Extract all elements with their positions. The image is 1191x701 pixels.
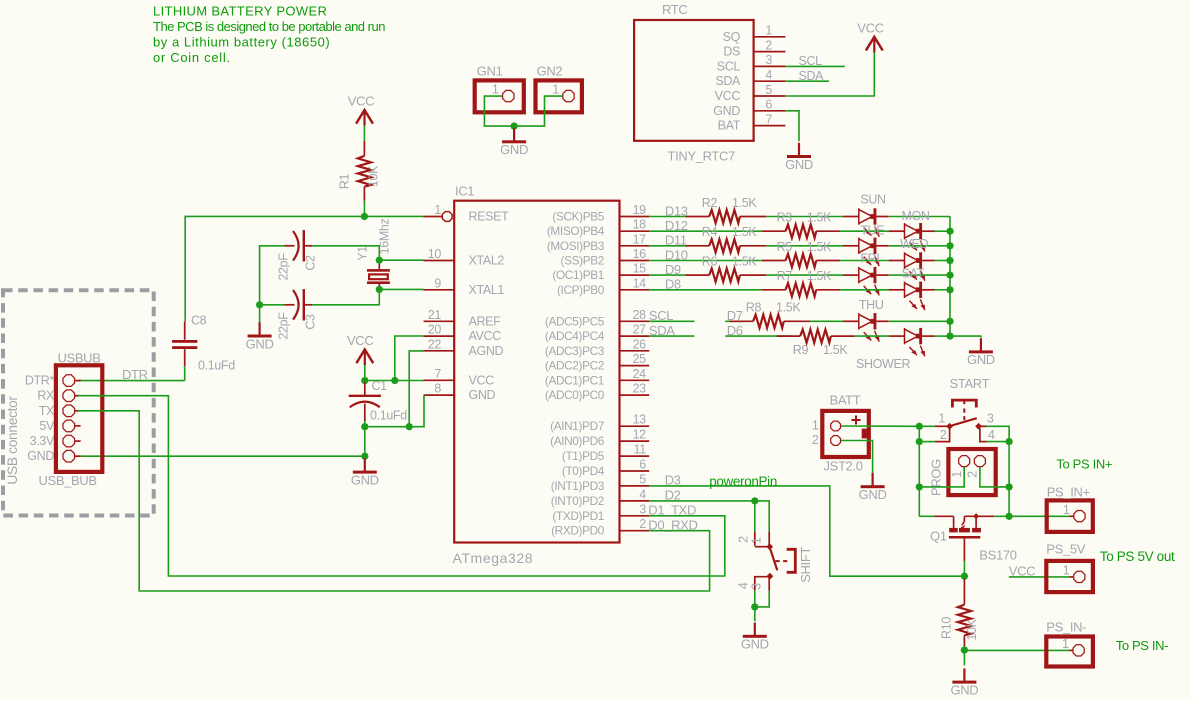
- svg-text:R2: R2: [702, 196, 718, 210]
- svg-text:2: 2: [940, 428, 947, 442]
- svg-text:D1_TXD: D1_TXD: [648, 503, 696, 518]
- svg-text:1: 1: [1062, 637, 1069, 651]
- svg-text:GND: GND: [351, 472, 379, 487]
- svg-text:(INT1)PD3: (INT1)PD3: [551, 479, 605, 493]
- wire BATT+ rail down: [918, 426, 920, 516]
- wire GN2 pin1 to GND: [514, 96, 562, 126]
- svg-text:1.5K: 1.5K: [732, 225, 757, 239]
- svg-text:1.5K: 1.5K: [776, 301, 801, 315]
- svg-text:(MISO)PB4: (MISO)PB4: [547, 224, 605, 238]
- svg-text:22pF: 22pF: [277, 312, 291, 340]
- annotation note: [153, 4, 385, 66]
- wire net poweronPin (D3): [649, 473, 964, 577]
- svg-text:4: 4: [765, 68, 772, 82]
- svg-text:R7: R7: [777, 269, 793, 283]
- wire net SCL (IC pin28): [649, 308, 695, 323]
- wire net SDA (IC pin27): [649, 323, 695, 338]
- svg-text:1: 1: [552, 83, 559, 97]
- svg-text:GN1: GN1: [477, 64, 503, 79]
- svg-text:2: 2: [765, 38, 772, 52]
- svg-text:28: 28: [633, 308, 647, 322]
- svg-text:To PS 5V out: To PS 5V out: [1100, 549, 1175, 564]
- svg-text:GND: GND: [500, 142, 528, 157]
- svg-text:4: 4: [639, 487, 646, 501]
- transistor Q1 BS170: [930, 513, 1017, 562]
- svg-text:0.1uFd: 0.1uFd: [198, 359, 235, 373]
- wire GND pin8: [365, 395, 424, 427]
- svg-text:18: 18: [633, 218, 647, 232]
- wire R1 to RESET node: [363, 201, 365, 217]
- svg-text:23: 23: [633, 382, 647, 396]
- svg-text:6: 6: [765, 98, 772, 112]
- wire SHIFT to GND: [755, 591, 769, 622]
- ground GND (R10): [950, 668, 978, 697]
- svg-text:R6: R6: [702, 255, 718, 269]
- svg-text:11: 11: [634, 443, 647, 457]
- svg-text:LITHIUM BATTERY POWER: LITHIUM BATTERY POWER: [153, 4, 327, 19]
- junction D2 node: [751, 497, 759, 505]
- wire VCC to pin7 node: [364, 365, 366, 381]
- svg-text:0.1uFd: 0.1uFd: [370, 409, 407, 423]
- ground GND (RTC): [785, 143, 813, 172]
- svg-text:TUE: TUE: [860, 224, 884, 238]
- junction LED bus: [946, 286, 954, 294]
- svg-text:17: 17: [633, 232, 647, 246]
- svg-text:GN2: GN2: [537, 64, 563, 79]
- svg-text:26: 26: [633, 337, 647, 351]
- svg-text:1: 1: [812, 419, 819, 433]
- junction PROG1 branch: [916, 483, 924, 491]
- wire C1 to GND node: [364, 421, 366, 427]
- svg-text:R8: R8: [746, 301, 762, 315]
- svg-text:R1: R1: [338, 173, 352, 189]
- svg-text:PS_5V: PS_5V: [1046, 542, 1085, 557]
- IC U1 ATmega328 (IC1): [424, 184, 650, 567]
- svg-text:D10: D10: [665, 247, 688, 262]
- svg-text:SAT: SAT: [902, 266, 925, 280]
- junction START pin1: [916, 423, 924, 431]
- svg-text:WED: WED: [900, 237, 928, 251]
- svg-text:5V: 5V: [39, 419, 55, 433]
- svg-text:BATT: BATT: [830, 393, 861, 408]
- wire AGND (pin22): [409, 351, 423, 427]
- USB connector frame: [3, 290, 154, 515]
- svg-text:To PS IN-: To PS IN-: [1116, 638, 1168, 653]
- junction LED bus: [946, 242, 954, 250]
- junction SHIFT gnd: [751, 603, 759, 611]
- svg-text:XTAL1: XTAL1: [469, 283, 505, 297]
- svg-text:3: 3: [750, 583, 764, 590]
- ground GND (GN1/GN2): [500, 128, 528, 157]
- wire C8 to DTR: [184, 366, 186, 380]
- connector GN2: [536, 64, 582, 113]
- svg-text:3.3V: 3.3V: [30, 434, 55, 448]
- svg-text:DTR*: DTR*: [25, 374, 55, 388]
- svg-text:SUN: SUN: [860, 193, 886, 207]
- crystal Y1: [356, 219, 392, 288]
- wire BATT- to GND: [841, 441, 873, 474]
- svg-text:TINY_RTC7: TINY_RTC7: [668, 149, 736, 164]
- svg-text:1: 1: [434, 203, 441, 217]
- svg-text:D12: D12: [665, 218, 688, 233]
- resistor R4 / LED TUE row (net D11): [649, 224, 950, 266]
- resistor R9 / LED SHOWER row (net D6): [725, 323, 950, 371]
- svg-text:(ADC2)PC2: (ADC2)PC2: [545, 359, 604, 373]
- svg-text:(ICP)PB0: (ICP)PB0: [557, 283, 605, 297]
- junction GN ground: [510, 122, 518, 130]
- svg-text:GND: GND: [27, 449, 54, 463]
- svg-text:SCL: SCL: [717, 59, 741, 73]
- svg-text:D0_RXD: D0_RXD: [648, 517, 697, 532]
- wire RTC VCC (pin5): [785, 51, 874, 96]
- resistor R10: [940, 579, 980, 649]
- svg-text:AGND: AGND: [469, 344, 504, 358]
- svg-text:R3: R3: [777, 211, 793, 225]
- svg-text:(T0)PD4: (T0)PD4: [562, 464, 605, 478]
- svg-text:PS_IN+: PS_IN+: [1047, 485, 1090, 500]
- svg-text:GND: GND: [967, 352, 995, 367]
- svg-text:1.5K: 1.5K: [807, 269, 832, 283]
- svg-text:3: 3: [765, 53, 772, 67]
- svg-text:C8: C8: [191, 314, 207, 328]
- annotation To PS IN+: [1056, 457, 1112, 472]
- svg-text:PS_IN-: PS_IN-: [1046, 620, 1086, 635]
- svg-text:(ADC1)PC1: (ADC1)PC1: [545, 373, 604, 387]
- svg-text:1: 1: [765, 24, 772, 38]
- svg-text:VCC: VCC: [348, 94, 374, 109]
- wire VCC to R1: [363, 126, 365, 142]
- wire START left pins: [919, 426, 934, 441]
- svg-text:The PCB is designed to be port: The PCB is designed to be portable and r…: [153, 19, 385, 34]
- power VCC (RTC): [857, 20, 883, 52]
- svg-text:R9: R9: [793, 343, 809, 357]
- wire C2 left to C3 left: [260, 246, 285, 305]
- svg-text:USB_BUB: USB_BUB: [39, 473, 97, 488]
- wire drain to PS_IN+: [1009, 515, 1073, 517]
- svg-text:RX: RX: [37, 389, 55, 403]
- svg-text:22: 22: [428, 337, 442, 351]
- capacitor C3: [277, 289, 318, 339]
- ground GND (BATT): [859, 473, 887, 502]
- svg-text:GND: GND: [950, 682, 978, 697]
- wire net GND (USB): [78, 455, 365, 457]
- svg-text:C1: C1: [372, 379, 388, 393]
- svg-text:SCL: SCL: [649, 308, 673, 323]
- switch SHIFT: [737, 532, 814, 591]
- junction AGND node: [405, 423, 413, 431]
- wire net RESET: [185, 216, 423, 321]
- svg-text:C2: C2: [304, 255, 318, 271]
- connector GN1: [475, 64, 524, 113]
- junction VCC/C1: [361, 377, 369, 385]
- svg-text:RESET: RESET: [469, 210, 510, 224]
- svg-text:1: 1: [938, 411, 945, 425]
- svg-text:VCC: VCC: [1009, 563, 1035, 578]
- switch START: [935, 376, 995, 442]
- svg-text:3: 3: [639, 502, 646, 516]
- resistor R8 / LED THU row (net D7): [725, 298, 950, 342]
- resistor R6 / LED FRI row (net D9): [649, 252, 950, 296]
- svg-text:(SS)PB2: (SS)PB2: [561, 254, 604, 268]
- svg-text:GND: GND: [785, 157, 813, 172]
- svg-text:MON: MON: [902, 209, 930, 223]
- svg-text:D11: D11: [665, 233, 687, 248]
- svg-text:GND: GND: [713, 104, 740, 118]
- svg-text:5: 5: [765, 83, 772, 97]
- wire AVCC (pin20): [395, 336, 424, 381]
- svg-text:AVCC: AVCC: [469, 329, 502, 343]
- svg-text:To PS IN+: To PS IN+: [1056, 457, 1112, 472]
- resistor R7 / LED SAT row (net D8): [649, 266, 950, 310]
- annotation To PS IN-: [1116, 638, 1168, 653]
- svg-text:GND: GND: [469, 388, 496, 402]
- svg-text:2: 2: [737, 536, 751, 543]
- svg-text:SDA: SDA: [715, 74, 741, 88]
- svg-text:25: 25: [633, 352, 647, 366]
- svg-text:Q1: Q1: [930, 529, 947, 544]
- svg-text:(ADC4)PC4: (ADC4)PC4: [545, 329, 605, 343]
- svg-text:D3: D3: [665, 473, 681, 488]
- junction source/poweron: [961, 572, 969, 580]
- wire net D2: [649, 488, 769, 532]
- svg-text:R5: R5: [777, 240, 793, 254]
- junction LED bus: [946, 271, 954, 279]
- junction START pin2: [916, 438, 924, 446]
- svg-text:poweronPin: poweronPin: [709, 474, 777, 489]
- svg-text:R4: R4: [702, 225, 718, 239]
- wire D2 branch pin2: [754, 501, 756, 532]
- capacitor C8: [172, 314, 235, 373]
- svg-text:D2: D2: [665, 488, 681, 503]
- svg-text:1: 1: [750, 537, 764, 544]
- svg-text:GND: GND: [246, 336, 274, 351]
- wire net D1_TXD (RX): [78, 396, 725, 576]
- junction XTAL2 node: [376, 256, 384, 264]
- svg-text:9: 9: [434, 276, 441, 290]
- wire drain to node: [994, 515, 1009, 517]
- svg-text:7: 7: [765, 112, 772, 126]
- svg-text:VCC: VCC: [857, 20, 883, 35]
- svg-text:(T1)PD5: (T1)PD5: [562, 449, 605, 463]
- svg-text:XTAL2: XTAL2: [469, 254, 505, 268]
- ground GND (C1): [351, 458, 379, 487]
- svg-text:VCC: VCC: [347, 333, 373, 348]
- svg-text:Y1: Y1: [356, 246, 370, 261]
- svg-text:BS170: BS170: [979, 548, 1016, 563]
- svg-text:SQ: SQ: [723, 30, 741, 44]
- wire PROG pin1: [919, 467, 964, 487]
- junction drain node: [1005, 513, 1013, 521]
- svg-text:3: 3: [987, 411, 994, 425]
- svg-text:7: 7: [434, 367, 441, 381]
- svg-text:13: 13: [633, 413, 647, 427]
- svg-text:(ADC5)PC5: (ADC5)PC5: [545, 314, 605, 328]
- ground GND (C2/C3): [246, 322, 274, 351]
- svg-text:1.5K: 1.5K: [807, 240, 832, 254]
- svg-text:(SCK)PB5: (SCK)PB5: [552, 210, 604, 224]
- svg-text:SDA: SDA: [799, 69, 825, 83]
- svg-text:(TXD)PD1: (TXD)PD1: [552, 509, 604, 523]
- svg-text:SHIFT: SHIFT: [798, 547, 813, 583]
- resistor R3 / LED MON row (net D12): [649, 209, 950, 252]
- resistor R1: [338, 141, 381, 201]
- svg-text:DS: DS: [723, 45, 740, 59]
- junction C3 left: [256, 301, 264, 309]
- svg-text:1.5K: 1.5K: [732, 196, 757, 210]
- ground GND (SHIFT): [741, 623, 769, 652]
- junction C1 bottom: [361, 423, 369, 431]
- svg-text:GND: GND: [859, 487, 887, 502]
- wire net SCL (RTC pin3): [785, 54, 844, 68]
- svg-text:1.5K: 1.5K: [823, 343, 848, 357]
- svg-text:SHOWER: SHOWER: [856, 357, 910, 371]
- wire C3 to GND: [259, 305, 261, 328]
- svg-text:FRI: FRI: [860, 252, 879, 266]
- ground GND (LED bus): [967, 338, 995, 367]
- wire net VCC to PS_5V: [1009, 563, 1073, 578]
- svg-text:R10: R10: [940, 617, 954, 639]
- svg-text:(RXD)PD0: (RXD)PD0: [551, 524, 605, 538]
- svg-text:16Mhz: 16Mhz: [378, 219, 392, 255]
- svg-text:START: START: [950, 376, 990, 391]
- junction START pin4: [1005, 438, 1013, 446]
- wire C2 right to XTAL2: [312, 246, 423, 260]
- svg-text:15: 15: [633, 262, 647, 276]
- svg-text:(OC1)PB1: (OC1)PB1: [552, 268, 604, 282]
- svg-text:27: 27: [633, 323, 647, 337]
- svg-text:10K: 10K: [965, 618, 979, 640]
- svg-text:ATmega328: ATmega328: [453, 550, 534, 566]
- junction XTAL1 node: [376, 286, 384, 294]
- svg-text:THU: THU: [859, 298, 884, 312]
- capacitor C1: [349, 379, 408, 423]
- svg-text:22pF: 22pF: [277, 253, 291, 281]
- svg-text:10K: 10K: [367, 165, 381, 187]
- svg-text:PROG: PROG: [929, 459, 944, 496]
- capacitor C2: [277, 230, 318, 280]
- power VCC (R1): [348, 94, 374, 126]
- resistor R5 / LED WED row (net D10): [649, 237, 950, 281]
- svg-text:D8: D8: [665, 277, 681, 292]
- svg-text:VCC: VCC: [715, 89, 741, 103]
- svg-text:21: 21: [428, 308, 442, 322]
- wire GN1 pin1 to GND: [484, 96, 514, 126]
- svg-text:(ADC3)PC3: (ADC3)PC3: [545, 344, 605, 358]
- svg-text:1.5K: 1.5K: [732, 255, 757, 269]
- connector BATT JST2.0: [812, 393, 869, 474]
- svg-text:(ADC0)PC0: (ADC0)PC0: [545, 388, 605, 402]
- svg-text:AREF: AREF: [469, 314, 502, 328]
- wire R10 to PS_IN-: [964, 649, 1072, 651]
- svg-text:6: 6: [639, 458, 646, 472]
- junction RESET/R1: [361, 213, 369, 221]
- wire PROG pin2: [980, 467, 1009, 487]
- junction GND net: [361, 452, 369, 460]
- junction PROG2 branch: [1005, 483, 1013, 491]
- power VCC (C1): [347, 333, 373, 365]
- wire net SDA (RTC pin4): [785, 69, 829, 83]
- svg-text:14: 14: [633, 276, 647, 290]
- svg-text:by a Lithium battery (18650): by a Lithium battery (18650): [153, 35, 330, 50]
- wire gate: [919, 515, 934, 517]
- connector PS_IN-: [1046, 620, 1093, 667]
- svg-text:(AIN1)PD7: (AIN1)PD7: [550, 419, 604, 433]
- junction LED bus: [946, 318, 954, 326]
- svg-text:4: 4: [988, 428, 995, 442]
- wire right rail down: [1008, 442, 1010, 517]
- svg-text:2: 2: [812, 433, 819, 447]
- svg-text:D9: D9: [665, 262, 681, 277]
- wire net VCC pin7: [365, 380, 424, 382]
- svg-text:(MOSI)PB3: (MOSI)PB3: [547, 239, 605, 253]
- wire R10 to GND: [963, 650, 965, 665]
- annotation To PS 5V out: [1100, 549, 1175, 564]
- svg-text:1: 1: [1063, 564, 1070, 578]
- svg-text:VCC: VCC: [469, 373, 495, 387]
- svg-text:1: 1: [950, 471, 964, 478]
- wire source down: [963, 539, 965, 577]
- svg-text:TX: TX: [39, 404, 55, 418]
- svg-text:1: 1: [492, 83, 499, 97]
- svg-text:SDA: SDA: [649, 323, 675, 338]
- svg-text:USB connector: USB connector: [5, 396, 20, 485]
- svg-text:GND: GND: [741, 637, 769, 652]
- svg-text:16: 16: [633, 247, 647, 261]
- junction LED bus: [946, 257, 954, 265]
- connector PS_5V: [1046, 542, 1093, 593]
- svg-text:(AIN0)PD6: (AIN0)PD6: [550, 434, 605, 448]
- wire RTC GND (pin6): [785, 111, 799, 142]
- junction LED bus: [946, 332, 954, 340]
- connector PROG: [929, 449, 996, 496]
- svg-text:2: 2: [639, 517, 646, 531]
- svg-text:DTR: DTR: [122, 367, 148, 382]
- wire net D0_RXD (TX): [78, 411, 710, 591]
- svg-text:5: 5: [639, 472, 646, 486]
- svg-text:19: 19: [633, 203, 647, 217]
- svg-text:RTC: RTC: [662, 2, 687, 17]
- svg-text:BAT: BAT: [718, 119, 741, 133]
- connector USBUB USB_BUB: [25, 351, 102, 488]
- wire BATT+ to START: [841, 425, 919, 427]
- wire C1 gnd branch: [364, 427, 366, 457]
- svg-text:USBUB: USBUB: [58, 351, 101, 366]
- wire net DTR: [78, 367, 185, 382]
- junction R10 bottom: [961, 646, 969, 654]
- wire START right pins: [987, 426, 1010, 441]
- junction LED bus: [946, 227, 954, 235]
- svg-text:SCL: SCL: [799, 54, 823, 68]
- connector PS_IN+: [1047, 485, 1093, 532]
- svg-text:2: 2: [965, 471, 979, 478]
- svg-text:C3: C3: [304, 314, 318, 330]
- svg-text:(INT0)PD2: (INT0)PD2: [551, 494, 604, 508]
- junction AVCC branch: [391, 377, 399, 385]
- svg-text:D13: D13: [665, 203, 688, 218]
- svg-text:JST2.0: JST2.0: [824, 458, 863, 473]
- svg-text:12: 12: [633, 428, 647, 442]
- svg-text:4: 4: [737, 582, 751, 589]
- svg-text:1: 1: [1063, 503, 1070, 517]
- svg-text:IC1: IC1: [455, 184, 474, 199]
- wire C3 right to XTAL1: [312, 289, 423, 304]
- svg-text:or Coin cell.: or Coin cell.: [153, 50, 231, 65]
- svg-text:1.5K: 1.5K: [807, 211, 832, 225]
- resistor R2 / LED SUN row (net D13): [649, 193, 950, 237]
- wire LED cathode bus: [950, 217, 981, 338]
- svg-text:24: 24: [633, 367, 647, 381]
- svg-text:10: 10: [428, 247, 442, 261]
